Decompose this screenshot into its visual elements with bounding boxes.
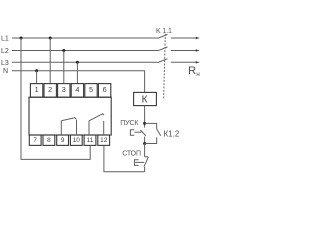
wire L1 output with arrow [171,37,197,39]
device body [29,97,111,135]
junction dot L1 left loop [20,37,23,40]
contact K1.1 pole L3 lever [158,59,168,63]
terminal 4 [71,84,83,98]
wire N drop to terminal 1 [36,71,38,84]
svg-text:12: 12 [100,137,108,144]
wire L2 bus [12,50,158,52]
wire L3 drop to terminal 4 [76,62,78,83]
wire terminal 12 to stop button [104,145,145,171]
svg-text:2: 2 [48,85,52,94]
relay contact 9-10 [60,121,62,135]
terminal 10 [70,135,82,145]
wire L3 output with arrow [171,61,197,63]
wire N bus to coil K [12,71,145,93]
terminal 9 [57,135,69,145]
junction dot L2 terminal 3 [62,49,65,52]
svg-text:К1.2: К1.2 [164,130,180,139]
svg-text:4: 4 [75,85,79,94]
terminal 2 [44,84,56,98]
svg-text:K 1.1: K 1.1 [156,28,172,35]
wire L2 drop to terminal 3 [63,51,65,84]
svg-text:L2: L2 [1,48,9,55]
svg-text:L1: L1 [1,35,9,42]
svg-text:н: н [196,71,200,78]
svg-text:6: 6 [103,85,107,94]
wire left loop L1 to terminal 11 [21,38,90,159]
svg-text:11: 11 [87,137,94,144]
terminal 12 [98,135,110,145]
wire L3 bus [12,61,158,63]
pushbutton PUSK normally open [140,130,146,136]
svg-text:N: N [3,68,8,75]
wire coil K to start button [144,106,146,128]
svg-text:R: R [188,65,196,77]
relay contact 11-12 [88,121,90,135]
svg-text:3: 3 [62,85,66,94]
junction dot N terminal 1 [35,69,38,72]
contact K1.1 pole L1 lever [158,34,168,38]
contactor coil K box [134,92,157,105]
svg-text:9: 9 [61,137,65,144]
svg-text:8: 8 [47,137,51,144]
wire L2 output with arrow [171,50,197,52]
terminal 5 [85,84,97,98]
junction dot below start button [143,142,146,145]
contact K1.1 pole L2 lever [158,47,168,51]
terminal 11 [84,135,96,145]
contact K1.2 branch [145,123,157,128]
pushbutton STOP normally closed [145,157,149,158]
svg-text:К: К [142,95,148,106]
svg-text:L3: L3 [1,60,9,67]
terminal 6 [98,84,110,98]
wire L1 bus [12,37,158,39]
svg-text:СТОП: СТОП [122,150,141,157]
wire start to stop [144,144,146,157]
svg-text:1: 1 [35,85,39,94]
mechanical link dashed line [164,34,166,100]
junction dot above start button [143,122,146,125]
junction dot L1 terminal 2 [49,37,52,40]
svg-text:7: 7 [33,137,37,144]
svg-text:5: 5 [89,85,93,94]
wire L1 drop to terminal 2 [49,38,51,84]
terminal 1 [30,84,42,98]
terminal 7 [29,135,41,145]
terminal 3 [58,84,70,98]
svg-text:10: 10 [73,137,81,144]
junction dot L3 terminal 4 [76,61,79,64]
terminal 8 [43,135,55,145]
svg-text:ПУСК: ПУСК [120,120,139,127]
